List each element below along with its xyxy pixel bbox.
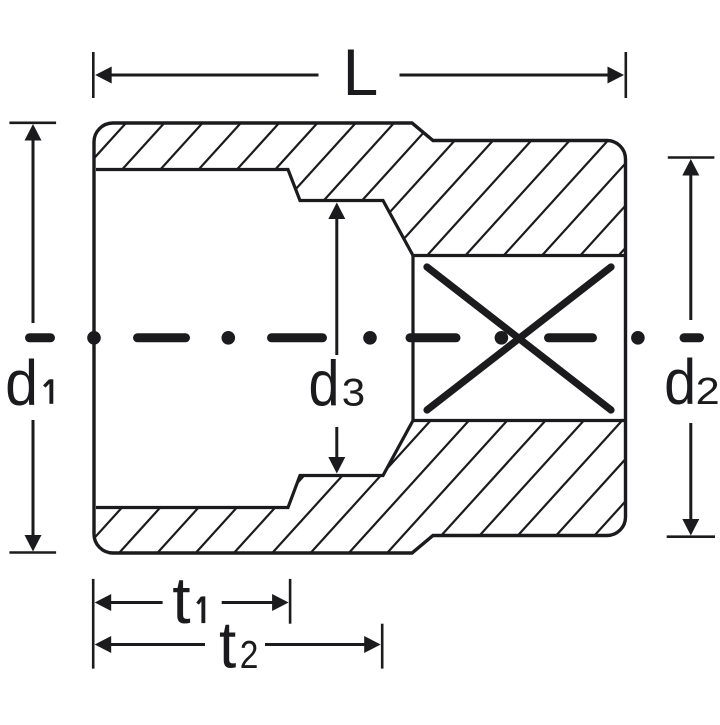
svg-text:2: 2 (240, 633, 259, 677)
svg-text:d: d (5, 348, 38, 420)
svg-text:L: L (343, 35, 379, 109)
svg-text:d: d (309, 348, 340, 419)
svg-text:d: d (664, 346, 696, 417)
svg-text:3: 3 (342, 370, 365, 414)
svg-text:t: t (172, 563, 190, 637)
svg-text:t: t (219, 608, 236, 682)
svg-text:2: 2 (696, 369, 720, 412)
